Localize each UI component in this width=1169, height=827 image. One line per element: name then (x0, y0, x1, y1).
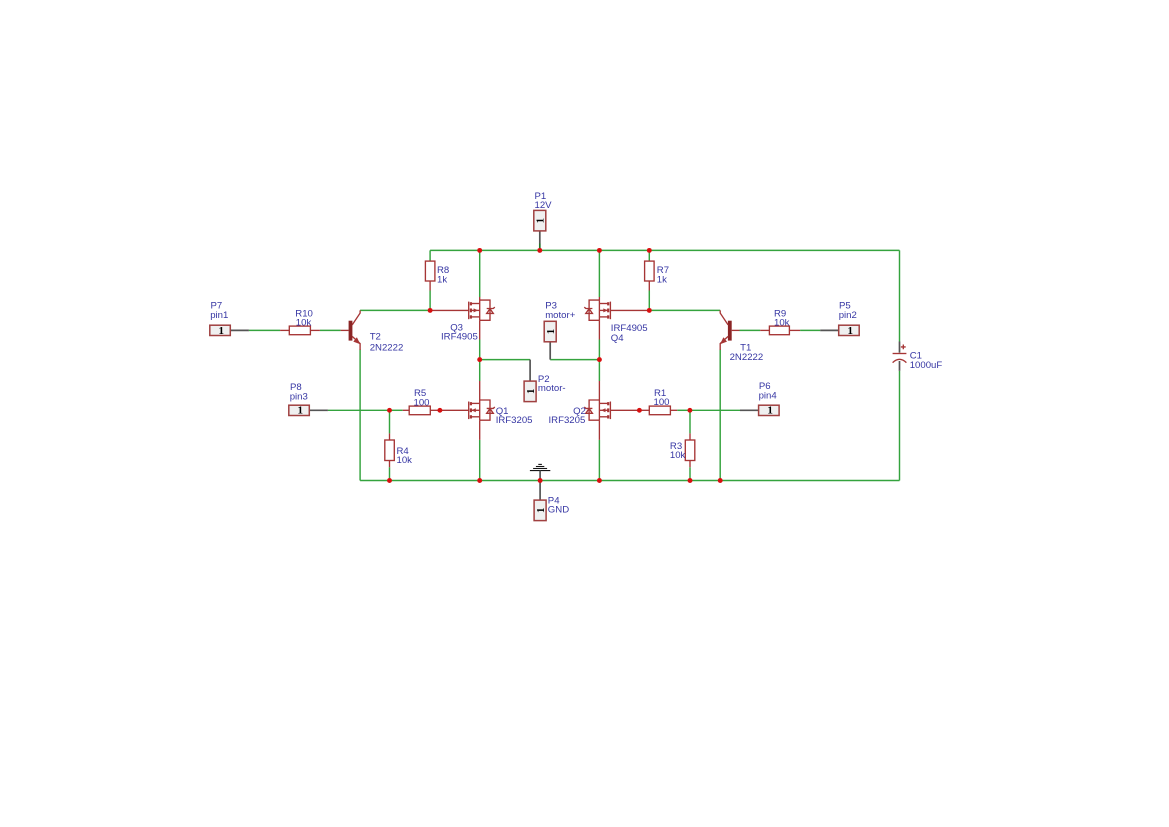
transistor Q3 body diode (487, 307, 495, 313)
connector P8 pin stub (309, 409, 328, 411)
transistor Q3 source pin (479, 320, 481, 339)
wire Q4 gate node to T1 collector (649, 309, 720, 311)
resistor R8 1k body (425, 261, 435, 281)
transistor Q2 IRF3205 gate pin (610, 409, 639, 411)
transistor Q4 drain-source column (598, 300, 600, 320)
resistor R9 left pin (760, 329, 769, 331)
resistor R8 bottom pin (429, 281, 431, 291)
transistor Q3 channel stubs (471, 304, 480, 317)
wire P7 net to R10 (249, 329, 280, 331)
transistor Q1 drain-source column (479, 400, 481, 420)
connector P7 body (210, 325, 231, 335)
wire R4 bottom to GND rail (389, 467, 391, 480)
wire P8 net to node A (328, 409, 390, 411)
transistor T2 emitter (352, 336, 360, 350)
transistor Q4 channel stubs (599, 304, 608, 317)
transistor T2 collector (352, 310, 360, 325)
svg-text:10k: 10k (670, 450, 686, 461)
resistor R5 100 body (409, 406, 430, 415)
junction at 689.9,410.3 (687, 408, 692, 413)
transistor Q4 channel segments (607, 302, 609, 318)
capacitor C1 top plate (893, 353, 907, 355)
transistor Q3 IRF4905 gate pin (430, 309, 469, 311)
wire T2 collector to Q3 gate node (360, 309, 430, 311)
wire Q3 drain from VCC (479, 250, 481, 297)
transistor Q3 drain pin (479, 297, 481, 300)
junction at 599.4,359.6 (597, 357, 602, 362)
resistor R3 10k body (685, 440, 695, 461)
wire R9 right to P5 (800, 329, 820, 331)
resistor R3 bottom pin (689, 461, 691, 468)
svg-text:pin1: pin1 (210, 310, 228, 321)
connector P6 body (759, 405, 780, 415)
svg-text:T2: T2 (370, 332, 381, 343)
transistor Q2 drain pin (598, 381, 600, 400)
transistor T1 collector (720, 310, 728, 325)
connector P1 body (534, 210, 546, 231)
wire Q1 drain to motor- node (479, 360, 481, 381)
wire node A to R5 left (390, 409, 403, 411)
wire R7 top to VCC (648, 250, 650, 261)
junction at 430.1,310.4 (428, 308, 433, 313)
resistor R5 left pin (403, 409, 410, 411)
transistor T1 emitter arrow (720, 337, 727, 344)
ground symbol (530, 464, 550, 470)
wire T2 emitter to GND rail (359, 350, 361, 481)
transistor Q4 source pin (598, 320, 600, 339)
connector P6 pin stub (740, 409, 759, 411)
wire node motor+ to P3 (550, 359, 599, 361)
svg-text:pin2: pin2 (839, 310, 857, 321)
capacitor C1 plus sign (901, 345, 906, 350)
svg-text:pin4: pin4 (759, 390, 778, 401)
connector P2 pin stub (529, 360, 531, 382)
svg-text:2N2222: 2N2222 (370, 343, 404, 354)
connector P3 pin stub (549, 342, 551, 360)
wire Q1 source to GND rail (479, 440, 481, 481)
transistor Q2 channel segments (607, 402, 609, 418)
junction at 539.8,250.4 (537, 248, 542, 253)
resistor R7 1k body (645, 261, 655, 281)
ground symbol stub (539, 471, 541, 481)
junction at 649.3,250.4 (647, 248, 652, 253)
svg-text:Q4: Q4 (611, 333, 624, 344)
svg-text:motor-: motor- (538, 383, 566, 394)
junction at 690.0,480.5 (688, 478, 693, 483)
wire R3 top to node B (689, 410, 691, 433)
resistor R4 bottom pin (389, 461, 391, 468)
wire R8 top to VCC (429, 250, 431, 261)
capacitor C1 top pin (899, 342, 901, 353)
wire R7 bottom to node T1C (648, 291, 650, 311)
junction at 389.5,480.5 (387, 478, 392, 483)
wire R8 bottom to node T2C (429, 291, 431, 311)
transistor Q2 body outline (589, 400, 599, 420)
transistor Q1 drain pin (479, 381, 481, 400)
wire R3 bottom to GND rail (689, 467, 691, 480)
wire T1 emitter to GND rail (719, 350, 721, 481)
transistor Q2 drain-source column (598, 400, 600, 420)
svg-text:1: 1 (767, 405, 773, 417)
wire P1 stub lower part (539, 248, 541, 250)
transistor T1 2N2222 base pin (732, 329, 740, 331)
transistor Q2 substrate arrow (601, 408, 606, 412)
transistor Q4 substrate arrow (603, 308, 608, 312)
connector P4 body (534, 500, 546, 520)
junction at 479.7,359.6 (477, 357, 482, 362)
svg-text:1: 1 (298, 405, 304, 417)
connector P1 pin stub (539, 231, 541, 250)
connector P4 pin stub (539, 481, 541, 501)
wire Q2 source to GND rail (598, 440, 600, 481)
junction at 720.2,480.5 (718, 478, 723, 483)
svg-text:1: 1 (525, 389, 537, 395)
svg-text:1: 1 (545, 329, 557, 335)
wire VCC top rail (430, 249, 899, 251)
wire Q4 source to motor+ node (598, 340, 600, 360)
wire Q4 drain from VCC (598, 250, 600, 297)
resistor R3 top pin (689, 433, 691, 440)
svg-text:1: 1 (535, 508, 547, 514)
junction at 479.7,250.4 (477, 248, 482, 253)
svg-text:1k: 1k (657, 275, 667, 286)
transistor Q3 substrate arrow (474, 308, 479, 312)
svg-text:motor+: motor+ (545, 310, 576, 321)
transistor T1 base bar (728, 321, 732, 341)
svg-text:1k: 1k (437, 275, 447, 286)
resistor R1 right pin (670, 409, 677, 411)
svg-text:12V: 12V (535, 200, 553, 211)
svg-text:10k: 10k (397, 455, 413, 466)
svg-text:IRF3205: IRF3205 (496, 415, 533, 426)
svg-text:IRF3205: IRF3205 (549, 415, 586, 426)
svg-text:1000uF: 1000uF (910, 360, 943, 371)
connector P2 body (524, 381, 536, 402)
wire R4 top to node A (389, 410, 391, 433)
transistor Q1 source pin (479, 420, 481, 440)
wire Q3 source to motor- node (479, 340, 481, 360)
resistor R1 left pin (639, 409, 649, 411)
transistor Q4 body diode (584, 307, 592, 313)
svg-text:GND: GND (548, 505, 569, 516)
resistor R9 10k body (769, 326, 789, 335)
connector P5 pin stub (820, 329, 839, 331)
transistor Q1 gate plate (468, 402, 470, 420)
junction at 540.1,480.5 (538, 478, 543, 483)
svg-text:10k: 10k (296, 318, 312, 329)
resistor R10 10k body (289, 326, 310, 335)
connector P5 body (839, 325, 860, 335)
svg-text:100: 100 (414, 397, 430, 408)
junction at 389.5,410.3 (387, 408, 392, 413)
transistor Q2 source pin (598, 420, 600, 440)
transistor T1 emitter (720, 336, 728, 350)
svg-text:1: 1 (219, 325, 225, 337)
transistor Q4 drain pin (598, 297, 600, 300)
transistor Q4 body outline (589, 300, 599, 320)
connector P8 body (289, 405, 310, 415)
resistor R7 bottom pin (648, 281, 650, 291)
wire R1 right to node B (677, 409, 690, 411)
resistor R1 100 body (649, 406, 670, 415)
svg-text:pin3: pin3 (290, 391, 308, 402)
transistor Q3 gate plate (468, 302, 470, 320)
wire Q2 drain to motor+ node (598, 360, 600, 381)
transistor Q4 IRF4905 gate pin (610, 309, 649, 311)
capacitor C1 bottom plate (893, 359, 907, 362)
resistor R9 right pin (789, 329, 800, 331)
connector P7 pin stub (230, 329, 249, 331)
transistor Q3 body outline (480, 300, 490, 320)
transistor Q1 channel stubs (471, 403, 480, 416)
wire node B to P6 (690, 409, 740, 411)
wire GND bottom rail (360, 480, 899, 482)
junction at 639.4,410.3 (637, 408, 642, 413)
capacitor C1 bottom pin (899, 361, 901, 371)
svg-text:1: 1 (847, 325, 853, 337)
wire right rail upper (VCC to C1) (899, 250, 901, 341)
junction at 439.9,410.3 (437, 408, 442, 413)
svg-text:IRF4905: IRF4905 (441, 332, 478, 343)
transistor T2 2N2222 base pin (341, 329, 349, 331)
junction at 599.4,480.5 (597, 478, 602, 483)
transistor T2 emitter arrow (353, 337, 360, 344)
transistor T2 base bar (349, 321, 353, 341)
resistor R4 top pin (389, 433, 391, 440)
resistor R4 10k body (385, 440, 395, 461)
wire R10 right to T2 base (320, 329, 341, 331)
transistor Q1 substrate arrow (471, 408, 476, 412)
connector P3 body (544, 321, 556, 342)
svg-text:1: 1 (535, 218, 547, 224)
wire node motor- to P2 (480, 359, 530, 361)
svg-text:100: 100 (654, 397, 670, 408)
junction at 599.4,250.4 (597, 248, 602, 253)
svg-text:2N2222: 2N2222 (730, 352, 764, 363)
transistor Q2 gate plate (609, 402, 611, 420)
transistor Q1 body diode (487, 407, 495, 413)
resistor R10 right pin (310, 329, 320, 331)
transistor Q2 channel stubs (599, 403, 608, 416)
wire T1 base to R9 (740, 329, 761, 331)
transistor Q4 gate plate (609, 302, 611, 320)
transistor Q1 body outline (480, 400, 490, 420)
svg-text:10k: 10k (774, 318, 790, 329)
resistor R10 left pin (280, 329, 289, 331)
transistor Q2 body diode (584, 407, 592, 413)
transistor Q3 channel segments (470, 302, 472, 318)
transistor Q1 IRF3205 gate pin (440, 409, 469, 411)
wire right rail lower (C1 to GND rail) (899, 371, 901, 481)
transistor Q1 channel segments (470, 402, 472, 418)
resistor R5 right pin to junction (430, 409, 440, 411)
junction at 479.7,480.5 (477, 478, 482, 483)
transistor Q3 drain-source column (479, 300, 481, 320)
junction at 649.3,310.4 (647, 308, 652, 313)
